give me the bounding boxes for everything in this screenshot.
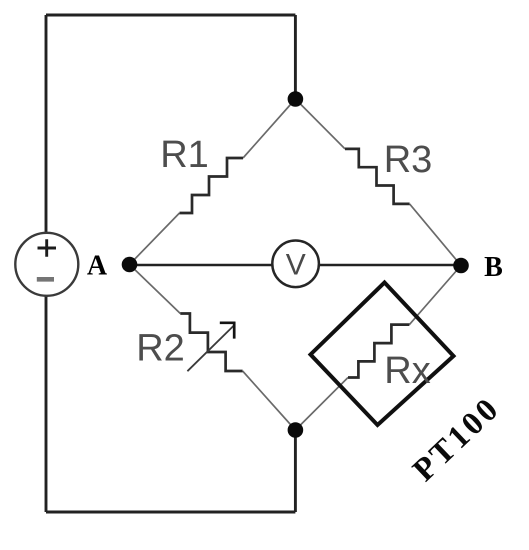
- resistor R3 body: [345, 149, 410, 204]
- voltage source plus sign: [38, 239, 57, 256]
- resistor Rx body: [348, 325, 409, 378]
- resistor R3 lead wires: [295, 99, 461, 266]
- voltage source V1 circle: [15, 233, 78, 296]
- wire: outer loop bottom: [46, 511, 295, 514]
- wire: outer loop top: [46, 14, 295, 17]
- svg-text:Rx: Rx: [384, 350, 430, 392]
- PT100 sensor box (rotated square): [311, 283, 454, 426]
- svg-text:A: A: [87, 251, 108, 282]
- node bottom junction dot: [288, 422, 304, 438]
- resistor Rx lead wires: [295, 266, 461, 431]
- wire: right vertical top (to top node): [294, 15, 297, 99]
- R2 variable arrow shaft: [187, 325, 234, 371]
- svg-text:B: B: [484, 252, 503, 283]
- R2 variable arrow head: [220, 322, 236, 339]
- svg-text:R2: R2: [136, 328, 185, 370]
- resistor R2 lead wires: [130, 265, 296, 431]
- voltmeter V circle: [272, 240, 319, 287]
- wire: center horizontal A to B (through voltmeter): [130, 264, 462, 267]
- node A junction dot: [122, 257, 138, 273]
- node B junction dot: [453, 258, 469, 274]
- svg-text:V: V: [286, 249, 306, 282]
- svg-text:R3: R3: [384, 139, 433, 181]
- wire: right vertical bottom (from bottom node): [294, 430, 297, 512]
- node top junction dot: [288, 91, 304, 107]
- svg-text:R1: R1: [160, 134, 209, 176]
- resistor R2 body (variable): [180, 314, 242, 372]
- resistor R1 lead wires: [130, 99, 296, 265]
- voltage source minus sign: [37, 277, 54, 282]
- resistor R1 body: [180, 158, 244, 213]
- wire: outer loop left vertical (through source): [45, 15, 48, 512]
